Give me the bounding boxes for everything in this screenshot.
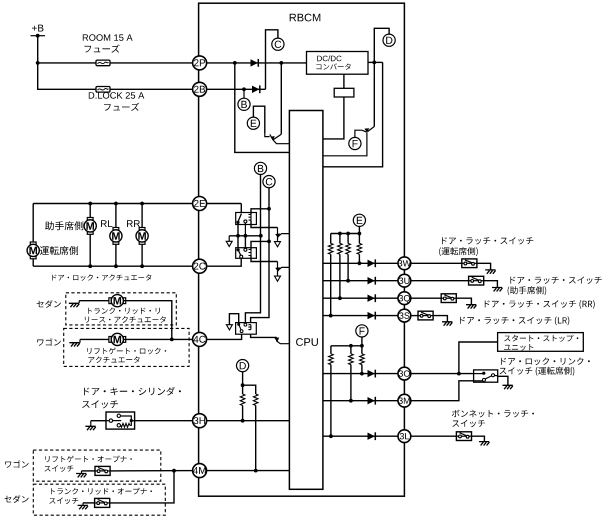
wire ground to opener switch (82, 470, 96, 472)
wire stub to B node (243, 89, 245, 98)
junction R2-3H (241, 419, 245, 423)
junction top bus (114, 202, 118, 206)
wire 3S to switch (404, 315, 418, 317)
transistor Q4 (275, 262, 289, 276)
transistor Q1 (265, 63, 290, 144)
label door latch switch 2 (510, 277, 601, 284)
diode row y=298.2 (368, 294, 376, 302)
dashed box wagon opener (33, 450, 161, 481)
label actuator (88, 356, 139, 363)
diode row y=263.3 (368, 259, 376, 267)
switch SW2 liftgate opener (95, 466, 110, 475)
ground SW8 (442, 322, 452, 326)
wire +B down (37, 36, 39, 63)
relay K1 contact box (236, 213, 257, 225)
label RBCM (290, 14, 321, 22)
start-stop unit box (498, 333, 584, 352)
connector pin 2C (193, 259, 207, 273)
wire 2E into relay K1 (240, 204, 242, 213)
wire K1 coil low to Q3 (251, 220, 278, 227)
wire 3H row (200, 420, 290, 422)
motor M1 passenger side (84, 218, 96, 235)
wire SW6 to ground (483, 281, 497, 288)
wire start-stop to 3O node (459, 342, 498, 374)
wire C line down (251, 188, 269, 323)
label door lock link (501, 358, 590, 366)
relay K1 contacts (236, 214, 247, 236)
label trunk lid re- (88, 308, 160, 315)
diode row y=436.2 (368, 432, 376, 440)
switch SW8 door latch LR (418, 311, 433, 320)
label switch (trunk) (49, 498, 78, 505)
switch SW7 door latch RR (441, 294, 456, 303)
motor M6 liftgate lock (109, 333, 126, 345)
transistor Q2 (323, 62, 374, 155)
switch SW5 door latch driver (462, 259, 477, 268)
wire F stub (361, 337, 363, 346)
relay K2 coil (249, 250, 252, 256)
wire 2P branch down to CPU (235, 63, 290, 152)
junction 2P to Q1 collector (279, 61, 283, 65)
diode row y=280.7 (368, 277, 376, 285)
label CPU (296, 338, 318, 346)
wire SW4 right to Q5 (251, 334, 277, 337)
label ROOM 15 A (83, 34, 133, 41)
junction 4C node (170, 338, 174, 342)
wire 3M row ext (404, 381, 473, 401)
connector pin 3H (193, 414, 207, 428)
wire node to C hook / 2B link (266, 30, 278, 90)
label door latch switch LR (460, 316, 569, 325)
wire DC/DC bottom to R1 (343, 74, 345, 88)
RBCM module box (199, 3, 405, 496)
resistor R pullup x=339.9 (338, 234, 343, 299)
connector pin 3L (398, 430, 411, 443)
switch SW1 key cylinder (106, 412, 135, 429)
wire motor1 drop (89, 204, 91, 267)
junction F bar (349, 344, 353, 348)
junction bar-B line (259, 234, 263, 238)
junction F bar (360, 344, 364, 348)
wire CPU row y=373.6 (323, 373, 405, 375)
label D.LOCK 25 A (89, 92, 145, 99)
wire D stub (242, 372, 244, 386)
fuse D.LOCK 25A (96, 87, 110, 93)
wire CPU row y=298.2 (323, 297, 405, 299)
switch SW9 contacts (474, 372, 498, 382)
diode D1 (251, 59, 259, 67)
label bonnet latch (452, 410, 534, 418)
wire E bar (331, 233, 360, 235)
wire 2C row (200, 258, 242, 266)
ground wagon actuator (69, 339, 80, 346)
wire E stub (358, 226, 360, 233)
junction pullup-row low (349, 399, 353, 403)
switch SW4 contacts (237, 323, 247, 333)
wire bar to relay K2 (244, 236, 246, 249)
resistor R2 (240, 385, 245, 421)
label liftgate opener (45, 456, 131, 463)
junction C line upper (267, 207, 271, 211)
wire key switch to 3H (135, 420, 200, 422)
wire SW9 to ground (498, 376, 508, 385)
motor M3 RR (136, 228, 148, 245)
wire trunk switch to 4M node (110, 471, 174, 503)
label unit (504, 344, 533, 351)
junction C line lower (267, 240, 271, 244)
label lease actuator (85, 316, 166, 323)
junction pullup-row (338, 296, 342, 300)
connector pin 3S (398, 309, 411, 322)
wire CPU row y=263.3 (323, 262, 405, 264)
dashed box sedan opener (33, 484, 165, 515)
motor M4 driver side (27, 242, 39, 259)
junction D split (241, 383, 245, 387)
switch SW10 bonnet latch (456, 432, 471, 441)
diode row y=373.6 (368, 370, 376, 378)
switch SW4 box (lock position) (236, 323, 257, 335)
junction bar-K1 (236, 234, 240, 238)
transistor Q3 (275, 228, 289, 241)
CPU box U1 (289, 111, 323, 490)
dashed box sedan actuator (66, 293, 177, 325)
label door lock actuator (52, 274, 151, 281)
label RL (101, 220, 112, 227)
ground SW6 (492, 288, 502, 292)
wire SW8 to ground (433, 316, 448, 322)
wire CPU row y=436.2 (323, 435, 405, 437)
ground sedan actuator (69, 301, 79, 308)
label switch (key cyl) (82, 400, 118, 408)
wire 3U to switch (404, 280, 468, 282)
label RR (127, 220, 140, 227)
node C (272, 38, 284, 50)
resistor R pulldown x=350.9 (349, 346, 354, 401)
wire K2 coil to C line (251, 241, 269, 249)
wire K1 coil to C line (251, 209, 269, 215)
switch SW4 coil (248, 325, 251, 330)
resistor R pulldown x=361.9 (360, 346, 365, 374)
node D (inputs) (237, 360, 249, 372)
diode row y=315.6 (368, 312, 376, 320)
label liftgate lock (87, 348, 166, 355)
wire 3Q to switch (404, 297, 441, 299)
junction R3-4M (254, 469, 258, 473)
wire bar to relay K2 moving contact (237, 236, 239, 249)
fuse ROOM 15A (96, 60, 110, 66)
wire M5 to 4C node (123, 301, 171, 340)
node C (relay drive) (263, 176, 275, 188)
connector pin 2P (193, 56, 207, 70)
connector pin 3O (398, 367, 411, 380)
wire SW10 to ground (471, 436, 484, 441)
resistor R3 (243, 385, 258, 470)
node F (pullups) (356, 325, 368, 337)
junction pullup-row (329, 314, 333, 318)
junction 2P branch (233, 61, 237, 65)
junction top bus (88, 202, 92, 206)
wire 2E to left bus (33, 203, 199, 205)
ground key cylinder (85, 421, 95, 431)
label fuse (katakana) (85, 45, 120, 53)
node +B tick (31, 35, 46, 37)
node E (247, 117, 259, 129)
dashed box wagon actuator (64, 328, 189, 366)
wire SW4 hook to arrow (229, 314, 238, 325)
junction bar-K2 (244, 234, 248, 238)
junction pullup-row (346, 279, 350, 283)
label (driver side) (439, 247, 478, 256)
wire ground to motor M5 (79, 300, 111, 302)
label door key cylinder (84, 387, 181, 396)
junction 2B (242, 87, 246, 91)
label driver side (40, 246, 78, 255)
junction bottom bus (114, 264, 118, 268)
relay K1 coil (249, 214, 252, 220)
label passenger side (45, 221, 83, 230)
wire motor RR drop (141, 204, 143, 267)
resistor R pullup x=359.4 (357, 234, 362, 264)
wire DC/DC out (368, 61, 383, 63)
wire ground to key switch (91, 420, 106, 422)
wire ground to motor M6 (80, 338, 111, 340)
wire SW7 to ground (456, 298, 471, 305)
wire B line down (245, 174, 260, 322)
switch SW6 door latch passenger (469, 276, 484, 285)
wire R1 to CPU (323, 97, 344, 139)
wire 3L to switch (404, 435, 456, 437)
label wagon 2 (5, 460, 29, 468)
resistor R pullup x=348.1 (346, 234, 351, 281)
junction +B (36, 34, 40, 38)
relay K2 contact box (236, 248, 257, 259)
junction E bar (346, 232, 350, 236)
connector pin 3W (398, 257, 411, 270)
wire 2P row inside (200, 62, 307, 64)
junction bottom bus (88, 264, 92, 268)
label door latch switch 1 (442, 237, 533, 244)
node B (relay drive) (254, 162, 266, 174)
junction top bus (140, 202, 144, 206)
wire 2B row inside (200, 88, 266, 90)
label trunk lid opener (51, 488, 152, 495)
label switch (liftgate) (45, 465, 74, 472)
label start-stop (504, 335, 578, 342)
wire 4C row (200, 334, 242, 339)
connector pin 3M (398, 394, 411, 407)
wire M6 to 4C (123, 338, 199, 340)
wire E hook to Q1 base (253, 106, 264, 134)
wire DC/DC node to CPU right (323, 62, 383, 166)
node F (349, 137, 361, 149)
node E (pullups) (353, 214, 365, 226)
resistor R pullup x=330.7 (328, 234, 333, 316)
junction +B split (36, 61, 40, 65)
label switch driver side (500, 367, 575, 376)
wire relay bar (229, 235, 261, 237)
label (passenger side) (508, 286, 547, 295)
junction E bar (338, 232, 342, 236)
ground arrow Q4 emitter (275, 276, 281, 281)
label fuse 2 (katakana) (104, 103, 139, 111)
switch SW3 trunk lid opener (95, 498, 110, 507)
ground SW7 (466, 305, 476, 309)
label wagon (37, 338, 61, 346)
wire F bar (331, 345, 362, 347)
transistor Q5 (274, 337, 289, 343)
label switch (bonnet) (452, 420, 485, 427)
junction pullup-row (358, 261, 362, 265)
wire CPU row y=400.7 (323, 400, 405, 402)
label DC/DC (317, 55, 341, 61)
wire driver motor drop (32, 244, 34, 266)
node B (238, 98, 250, 110)
junction pullup-row low (360, 372, 364, 376)
node +B label (32, 25, 44, 32)
label sedan 2 (5, 495, 29, 503)
resistor R pulldown x=330.9 (329, 346, 334, 436)
wire CPU row y=315.6 (323, 315, 405, 317)
wire K2 coil low to Q4 (251, 256, 278, 262)
connector pin 4M (193, 464, 207, 478)
ground SW9 (503, 385, 513, 389)
wire down to D.LOCK row (38, 63, 200, 89)
wire SW5 to ground (477, 263, 491, 270)
ground trunk opener (78, 503, 88, 509)
motor M5 trunk lid release (109, 295, 126, 307)
ground arrow bar (226, 236, 232, 247)
wire motor RL drop (115, 204, 117, 267)
junction DC/DC node (372, 61, 376, 65)
wire left bus down (32, 204, 34, 245)
relay K2 contacts (237, 248, 247, 258)
junction E bar (358, 232, 362, 236)
junction 4M node (172, 469, 176, 473)
wire 3W to switch (404, 262, 461, 264)
wire CPU row y=280.7 (323, 280, 405, 282)
wire 2E row (200, 203, 242, 205)
motor M2 RL (110, 228, 122, 245)
label door latch switch RR (485, 300, 595, 309)
junction pullup-row low (329, 434, 333, 438)
node D (383, 34, 395, 46)
DC/DC converter box (307, 52, 369, 75)
ground SW10 (479, 442, 489, 446)
wire 3O row ext (404, 373, 473, 375)
wire bottom bus (33, 265, 199, 267)
junction 3O node (457, 372, 461, 376)
wire F hook (355, 130, 362, 137)
wire opener switch to 4M (110, 470, 200, 472)
wire ground to trunk switch (83, 502, 95, 504)
connector pin 3U (398, 274, 411, 287)
connector pin 2E (193, 197, 207, 211)
diode row y=400.7 (368, 397, 376, 405)
switch SW9 door lock link box (474, 370, 498, 382)
wire K1 common to bar (237, 222, 239, 236)
connector pin 3Q (398, 292, 411, 305)
wire 4M row (200, 470, 290, 472)
wire ROOM fuse row to 2P (38, 62, 200, 64)
label converter (katakana) (316, 63, 350, 69)
label sedan (37, 300, 61, 308)
resistor R1 (box style) (334, 88, 354, 97)
diode D2 (252, 85, 260, 93)
wire to D hook (374, 28, 389, 62)
ground SW5 (485, 270, 495, 274)
ground arrow Q3 emitter (275, 242, 281, 247)
junction bottom bus (140, 264, 144, 268)
ground arrow SW4 (226, 325, 232, 330)
ground liftgate opener (76, 471, 86, 478)
connector pin 2B (193, 82, 207, 96)
connector pin 4C (193, 332, 207, 346)
